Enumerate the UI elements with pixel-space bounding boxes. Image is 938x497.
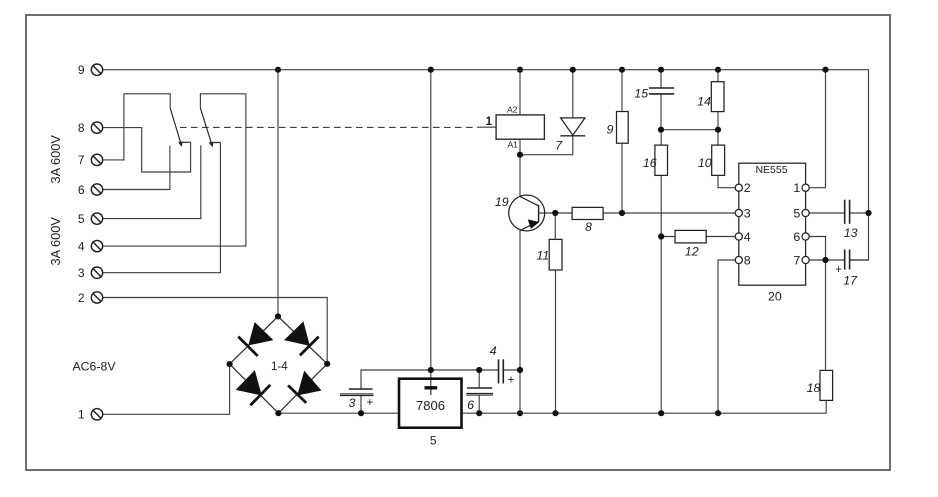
svg-text:6: 6	[467, 398, 474, 412]
switch contact K1a fixed contact bar	[179, 141, 191, 143]
svg-text:5: 5	[78, 212, 85, 226]
svg-text:11: 11	[536, 249, 549, 263]
wire terminal 2 to bridge right corner	[103, 298, 328, 364]
svg-text:+: +	[508, 374, 515, 386]
wire bottom rail left (bridge bottom to 7806 input)	[278, 412, 399, 414]
resistor R12	[675, 230, 706, 243]
wire bottom rail right (7806 output to resistor 18)	[462, 400, 827, 413]
svg-text:2: 2	[744, 181, 751, 195]
wire resistor 10 column to pin 2	[718, 130, 735, 188]
pin 6	[802, 233, 809, 240]
svg-text:18: 18	[807, 381, 821, 395]
switch contact K1b blade	[200, 108, 213, 146]
pin 4	[735, 233, 742, 240]
junction dots 6V row	[428, 367, 434, 373]
svg-text:7: 7	[555, 139, 563, 153]
junction dot relay-diode node	[517, 152, 523, 158]
svg-text:5: 5	[793, 206, 800, 220]
svg-text:AC6-8V: AC6-8V	[72, 360, 116, 374]
bridge diode top-right	[285, 322, 309, 345]
wire pin 6 down to pin 7 node	[809, 237, 825, 261]
svg-text:13: 13	[844, 226, 858, 240]
junction dots row 129	[658, 127, 664, 133]
capacitor C4 electrolytic	[498, 359, 500, 383]
wire node row 129 horizontal	[661, 129, 718, 131]
wire cap 3 bottom to rail	[360, 396, 362, 413]
switch contact K1a blade	[170, 108, 182, 145]
svg-text:A2: A2	[507, 104, 518, 114]
svg-text:8: 8	[78, 121, 85, 135]
svg-text:1: 1	[793, 181, 800, 195]
wire relay column: bus to coil, coil to junction	[519, 70, 521, 155]
wire base to node	[539, 212, 556, 214]
svg-text:4: 4	[744, 230, 751, 244]
svg-text:16: 16	[643, 156, 657, 170]
svg-text:1-4: 1-4	[271, 361, 288, 373]
wire resistor 12 to node F and pin 4	[661, 236, 735, 238]
svg-text:3: 3	[78, 266, 85, 280]
terminal 9	[91, 64, 102, 75]
terminal 3	[91, 267, 102, 278]
terminal 1	[91, 409, 102, 420]
wire pin 8 left and down to rail	[718, 260, 735, 413]
wire resistor 9 column	[621, 70, 623, 213]
svg-text:8: 8	[585, 220, 592, 234]
wire cap 13 to right column	[850, 212, 869, 214]
svg-text:6: 6	[793, 230, 800, 244]
wire resistor 16 column down to rail	[660, 130, 662, 414]
svg-text:10: 10	[698, 156, 712, 170]
wire terminal 8 to switch contact step	[103, 128, 191, 172]
bridge rectifier 1-4 edges	[230, 316, 328, 413]
wire cap 15 column	[660, 70, 662, 130]
wire pin 7 to cap 17	[809, 259, 845, 261]
wire resistor 14 column	[717, 70, 719, 130]
wire node to resistor 11 and resistor 11 to rail	[554, 213, 556, 413]
junction dots base row	[552, 210, 558, 216]
svg-text:3A 600V: 3A 600V	[48, 135, 63, 184]
wire transistor collector	[519, 155, 521, 197]
wire pin 1 to top bus	[809, 70, 825, 188]
capacitor C15	[649, 87, 674, 89]
pin 5	[802, 209, 809, 216]
wire pin 5 to cap 13	[809, 212, 845, 214]
svg-text:15: 15	[634, 86, 648, 100]
resistor R8	[572, 207, 603, 219]
wire terminal 4 up and over to switch 2 pivot	[103, 94, 246, 246]
diode 7	[561, 118, 585, 135]
terminal 6	[91, 184, 102, 195]
transistor Q19	[509, 195, 545, 231]
wire cap4 right plate to emitter column	[503, 369, 520, 371]
regulator 7806 box	[399, 379, 462, 428]
wire bridge top corner to top bus	[277, 70, 279, 317]
terminal 4	[91, 240, 102, 251]
wire terminal 7 up and over to switch 1 pivot	[103, 94, 171, 160]
svg-text:+: +	[366, 397, 373, 409]
svg-text:4: 4	[78, 239, 85, 253]
wire 6V line cap3 to cap4	[361, 370, 499, 389]
bridge diode bottom-left	[237, 371, 262, 395]
svg-text:7806: 7806	[416, 398, 445, 413]
capacitor C13	[844, 200, 846, 224]
wire terminal 5 to switch 2 throw	[103, 145, 201, 218]
pin 1	[802, 184, 809, 191]
wire terminal 6 to switch 1 throw	[103, 146, 170, 190]
terminal 8	[91, 122, 102, 133]
capacitor C6 electrolytic	[467, 387, 492, 389]
svg-text:5: 5	[430, 433, 437, 447]
resistor R10	[712, 145, 725, 175]
svg-text:3A 600V: 3A 600V	[48, 217, 63, 266]
terminal 2	[91, 292, 102, 303]
svg-text:12: 12	[685, 245, 699, 259]
terminal 7	[91, 154, 102, 165]
bridge diode top-left	[249, 323, 273, 345]
wire top bus from terminal 9 to right side	[103, 70, 869, 260]
junction dots bridge corners	[275, 313, 281, 319]
switch contact K1b fixed contact bar	[209, 142, 220, 144]
svg-text:20: 20	[768, 290, 782, 304]
svg-text:7: 7	[78, 153, 85, 167]
svg-text:7: 7	[793, 253, 800, 267]
junction dots top bus	[227, 67, 872, 417]
svg-text:+: +	[835, 264, 842, 276]
wire solid segment dashed line to relay box	[478, 126, 497, 128]
junction dot node F resistor 12	[658, 233, 664, 239]
svg-text:4: 4	[490, 344, 497, 358]
wire terminal 1 to bridge left corner	[103, 364, 230, 414]
terminal 5	[91, 213, 102, 224]
wire bus to diode 7 top	[572, 70, 574, 118]
wire node to resistor 8 and resistor 8 to node E	[555, 212, 622, 214]
svg-text:3: 3	[744, 206, 751, 220]
regulator 7806 tab marker	[425, 386, 438, 389]
wire pin7 node down to resistor 18	[825, 260, 827, 370]
resistor R11	[549, 239, 562, 270]
svg-text:19: 19	[495, 195, 509, 209]
wire relay junction to diode 7 bottom	[520, 136, 573, 155]
svg-text:1: 1	[486, 115, 493, 128]
svg-text:3: 3	[349, 396, 356, 410]
svg-text:6: 6	[78, 183, 85, 197]
svg-text:1: 1	[78, 408, 85, 422]
wire cap 17 right to node	[850, 259, 869, 261]
pin 8	[735, 256, 742, 263]
wire node E to NE555 pin 3	[622, 212, 735, 214]
wire terminal 3 to switch 2 contact	[103, 143, 221, 273]
resistor R9	[617, 112, 629, 144]
svg-text:14: 14	[697, 95, 711, 109]
resistor R16	[655, 145, 668, 175]
wire 7806 top column from bus	[430, 70, 432, 387]
IC U20 NE555 box	[739, 163, 806, 285]
capacitor C3 electrolytic	[349, 388, 373, 390]
capacitor C17 electrolytic	[844, 249, 846, 269]
svg-text:8: 8	[744, 253, 751, 267]
pin 2	[735, 184, 742, 191]
svg-text:A1: A1	[507, 140, 518, 150]
pin 7	[802, 256, 809, 263]
wire transistor emitter down to rail	[519, 230, 521, 413]
resistor R18	[820, 370, 833, 400]
resistor R14	[711, 82, 724, 112]
junction dots bottom rail	[275, 410, 281, 416]
bridge diode bottom-right	[298, 372, 321, 396]
wire cap 6 top and bottom	[478, 370, 480, 413]
svg-text:2: 2	[78, 291, 85, 305]
svg-text:NE555: NE555	[755, 164, 787, 176]
dashed link line relay to contacts	[180, 126, 478, 128]
svg-text:9: 9	[78, 63, 85, 77]
junction dot pin6-pin7 node	[822, 257, 828, 263]
relay coil K1	[496, 115, 544, 139]
svg-text:9: 9	[607, 122, 614, 136]
pin 3	[735, 209, 742, 216]
svg-text:17: 17	[843, 274, 858, 288]
